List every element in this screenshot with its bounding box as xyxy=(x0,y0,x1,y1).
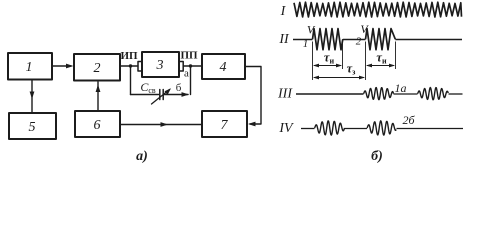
waveform III baseline segment 2 xyxy=(394,93,418,95)
arrowhead into block7 right side xyxy=(248,122,256,127)
arrowheads tau_z xyxy=(313,76,319,80)
arrowheads tau_i 1 xyxy=(313,64,319,68)
svg-text:ИП: ИП xyxy=(120,50,138,62)
svg-text:III: III xyxy=(277,87,293,102)
block 1 xyxy=(8,53,52,80)
transducer PP (right of block 3) xyxy=(179,62,183,72)
svg-text:2: 2 xyxy=(356,36,362,48)
wire block2 to transducer IP xyxy=(120,65,138,67)
svg-text:1а: 1а xyxy=(395,81,407,95)
wire block6 to block7 xyxy=(120,124,202,126)
svg-text:а): а) xyxy=(136,149,148,164)
block 4 xyxy=(202,54,245,79)
waveform II burst 1 xyxy=(313,29,343,50)
svg-text:1: 1 xyxy=(303,38,309,50)
junction dot node before IP xyxy=(129,64,132,67)
waveform II baseline segment 2 xyxy=(343,39,366,41)
svg-text:6: 6 xyxy=(94,118,101,133)
waveform III baseline segment 3 xyxy=(449,93,463,95)
block 6 xyxy=(75,111,120,137)
waveform IV baseline segment 1 xyxy=(301,128,315,130)
wire block4 right down to block7 xyxy=(245,67,261,125)
svg-text:II: II xyxy=(278,32,290,47)
waveform II burst 2 xyxy=(366,29,396,50)
block 7 xyxy=(202,111,247,137)
arrowhead up to block2 xyxy=(96,85,101,93)
bypass wire bottom right segment xyxy=(163,94,188,96)
svg-text:а: а xyxy=(184,68,189,80)
arrowhead into block2 xyxy=(66,64,74,69)
waveform IV burst 1 xyxy=(315,121,345,135)
waveform III baseline segment 1 xyxy=(296,93,364,95)
arrowheads tau_i 2 xyxy=(366,64,372,68)
svg-text:4: 4 xyxy=(220,60,227,75)
dimension arrow tau_i 1 xyxy=(314,65,341,67)
bypass wire bottom left segment xyxy=(131,94,159,96)
svg-text:5: 5 xyxy=(29,120,36,135)
waveform II baseline segment 1 xyxy=(293,39,313,41)
svg-text:ПП: ПП xyxy=(180,50,198,62)
waveform II baseline segment 3 xyxy=(395,39,462,41)
block 2 xyxy=(74,54,120,81)
tick line at start of burst2 xyxy=(365,42,367,81)
wire transducer PP to block4 xyxy=(183,65,202,67)
arrowhead block6 to block7 xyxy=(161,122,169,127)
svg-text:1: 1 xyxy=(26,60,33,75)
bypass wire left vertical xyxy=(130,66,132,95)
waveform IV baseline segment 2 xyxy=(345,128,368,130)
svg-text:7: 7 xyxy=(221,118,229,133)
tick line at start of burst1 xyxy=(312,42,314,81)
svg-text:б: б xyxy=(176,82,182,94)
svg-text:2б: 2б xyxy=(402,113,415,127)
capacitor variable arrow xyxy=(152,90,170,105)
block 5 xyxy=(9,113,56,139)
svg-text:2: 2 xyxy=(94,61,101,76)
arrowhead on bypass wire xyxy=(182,92,190,97)
tick line at end of burst2 xyxy=(395,42,397,70)
wire block1 down to block5 xyxy=(31,80,33,112)
svg-text:3: 3 xyxy=(156,58,164,73)
waveform III burst 2 xyxy=(418,88,449,100)
bypass wire right vertical xyxy=(190,66,192,95)
block 3 xyxy=(142,52,179,77)
dimension arrow tau_z xyxy=(314,77,364,79)
arrowhead on variable capacitor arrow xyxy=(165,88,172,95)
svg-text:б): б) xyxy=(371,149,383,164)
tick line at end of burst1 xyxy=(342,42,344,70)
junction dot node a after PP xyxy=(189,64,192,67)
waveform III burst 1 xyxy=(364,88,394,100)
wire block6 up to block2 xyxy=(97,82,99,111)
waveform I continuous oscillation xyxy=(294,2,462,17)
arrowhead down to block5 xyxy=(30,92,35,100)
capacitor Csv plates xyxy=(160,90,163,100)
waveform IV burst 2 xyxy=(367,121,396,135)
transducer IP (left of block 3) xyxy=(138,62,142,72)
dimension arrow tau_i 2 xyxy=(367,65,394,67)
svg-text:IV: IV xyxy=(278,121,294,136)
wire block1 to block2 xyxy=(52,65,71,67)
waveform IV baseline segment 3 xyxy=(397,128,464,130)
